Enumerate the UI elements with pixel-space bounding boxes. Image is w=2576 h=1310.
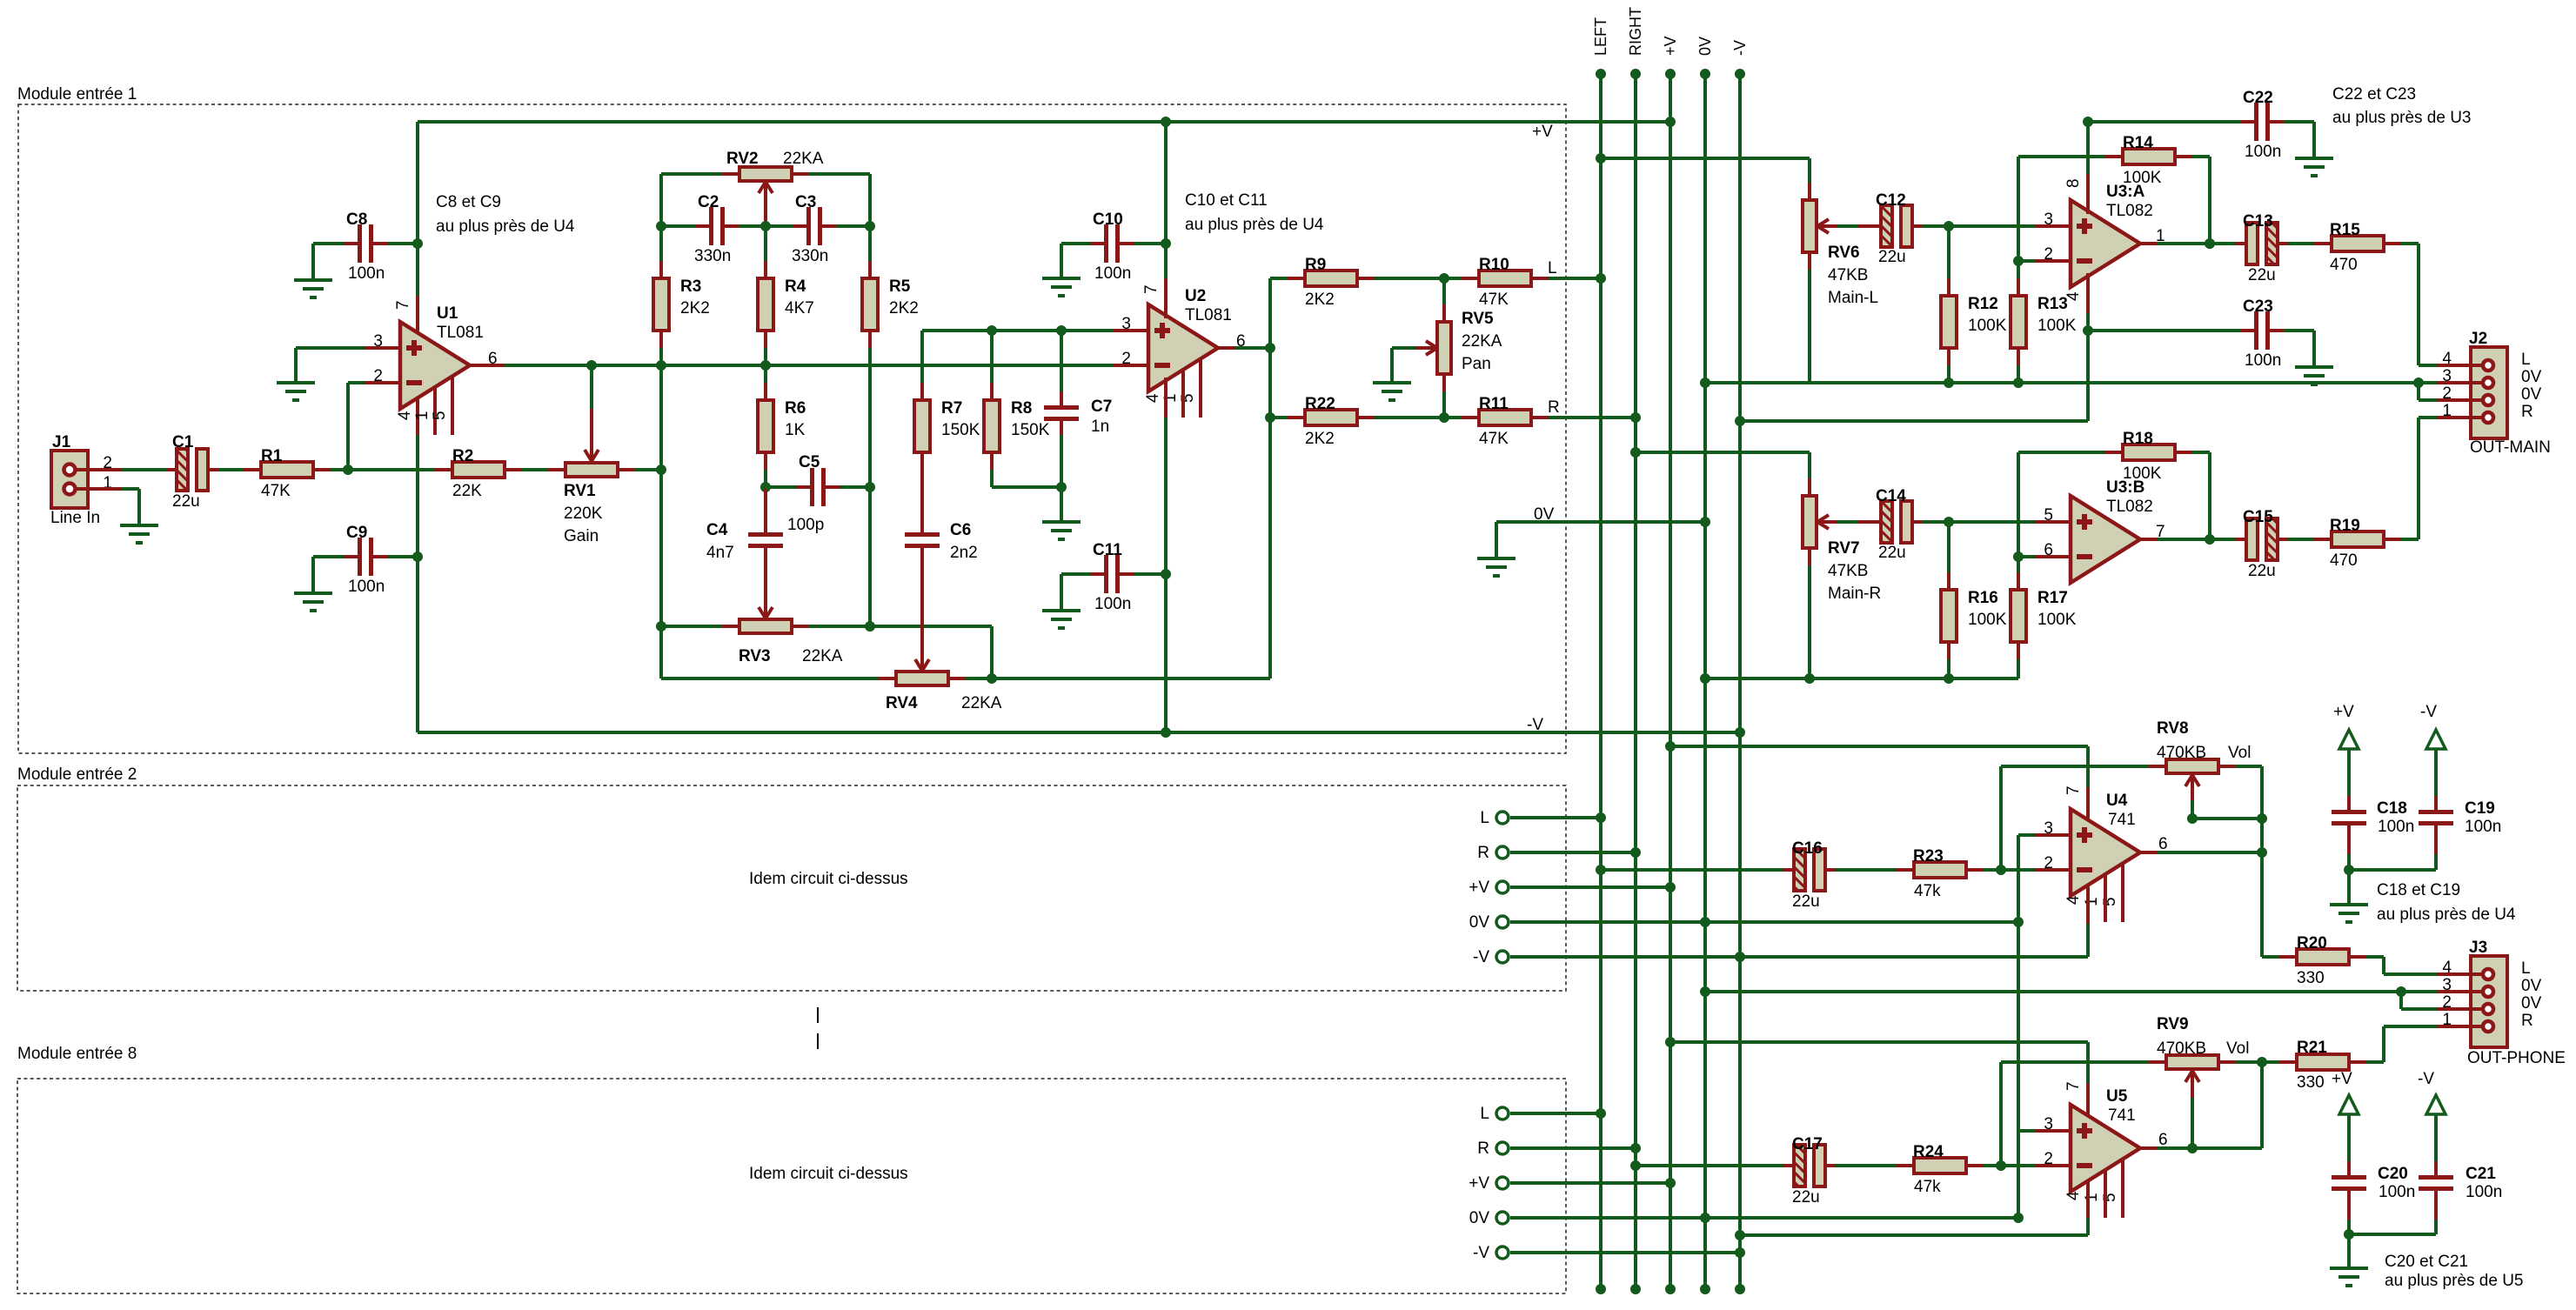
svg-text:U5: U5 xyxy=(2106,1087,2128,1106)
svg-text:22KA: 22KA xyxy=(1462,332,1502,351)
svg-text:L: L xyxy=(1480,809,1489,827)
svg-text:U1: U1 xyxy=(437,304,458,323)
svg-text:+V: +V xyxy=(1469,1174,1489,1193)
svg-text:0V: 0V xyxy=(2521,368,2542,386)
svg-text:-V: -V xyxy=(1731,40,1749,56)
svg-text:4: 4 xyxy=(2064,895,2083,905)
svg-text:C20: C20 xyxy=(2378,1165,2408,1183)
svg-text:Main-L: Main-L xyxy=(1828,289,1878,307)
svg-text:+V: +V xyxy=(1469,879,1489,897)
svg-text:7: 7 xyxy=(2064,785,2083,795)
svg-text:7: 7 xyxy=(1142,284,1161,294)
svg-text:R18: R18 xyxy=(2123,430,2153,448)
svg-text:7: 7 xyxy=(394,300,412,310)
svg-text:Pan: Pan xyxy=(1462,355,1491,373)
svg-text:C12: C12 xyxy=(1876,191,1906,210)
svg-text:47KB: 47KB xyxy=(1828,266,1868,284)
svg-text:3: 3 xyxy=(373,332,383,351)
svg-text:330: 330 xyxy=(2297,1073,2325,1092)
svg-text:0V: 0V xyxy=(1696,37,1714,56)
svg-text:1K: 1K xyxy=(785,421,806,439)
svg-text:C14: C14 xyxy=(1876,487,1906,505)
svg-text:+V: +V xyxy=(1662,36,1679,56)
svg-text:-V: -V xyxy=(1473,1244,1489,1262)
svg-text:R10: R10 xyxy=(1479,256,1509,274)
svg-text:R16: R16 xyxy=(1968,589,1998,607)
svg-text:4: 4 xyxy=(396,411,414,420)
svg-text:R23: R23 xyxy=(1913,847,1944,866)
svg-text:R17: R17 xyxy=(2037,589,2068,607)
svg-text:Idem circuit ci-dessus: Idem circuit ci-dessus xyxy=(749,1165,908,1183)
svg-text:R6: R6 xyxy=(785,399,806,418)
svg-text:2: 2 xyxy=(2044,245,2053,264)
svg-text:2K2: 2K2 xyxy=(889,299,919,317)
svg-text:LEFT: LEFT xyxy=(1592,17,1609,56)
svg-text:R: R xyxy=(1477,1140,1489,1158)
svg-text:R24: R24 xyxy=(1913,1143,1944,1161)
svg-text:22u: 22u xyxy=(1792,892,1820,911)
svg-text:R21: R21 xyxy=(2297,1039,2327,1057)
svg-text:-V: -V xyxy=(2418,1070,2434,1088)
svg-text:RV8: RV8 xyxy=(2157,719,2189,738)
svg-text:R4: R4 xyxy=(785,277,806,296)
svg-text:C18 et C19: C18 et C19 xyxy=(2377,881,2460,899)
svg-text:R20: R20 xyxy=(2297,934,2327,952)
svg-text:2: 2 xyxy=(373,367,383,385)
svg-text:6: 6 xyxy=(2158,1131,2168,1149)
svg-text:RV2: RV2 xyxy=(726,150,759,168)
svg-text:2K2: 2K2 xyxy=(1305,430,1335,448)
svg-text:100n: 100n xyxy=(2245,143,2281,161)
svg-text:TL081: TL081 xyxy=(1185,306,1232,324)
svg-text:47K: 47K xyxy=(1479,291,1509,309)
svg-text:-V: -V xyxy=(2420,703,2437,721)
svg-text:100n: 100n xyxy=(2379,1183,2415,1201)
svg-text:C13: C13 xyxy=(2243,212,2273,231)
svg-text:R8: R8 xyxy=(1011,399,1032,418)
svg-text:150K: 150K xyxy=(1011,421,1050,439)
svg-text:R14: R14 xyxy=(2123,134,2153,152)
svg-text:470: 470 xyxy=(2330,551,2358,570)
svg-text:R1: R1 xyxy=(261,447,283,465)
svg-text:J3: J3 xyxy=(2469,939,2487,957)
svg-text:470: 470 xyxy=(2330,256,2358,274)
svg-text:6: 6 xyxy=(2158,835,2168,853)
svg-text:C8 et C9: C8 et C9 xyxy=(436,193,501,211)
svg-text:47k: 47k xyxy=(1914,1178,1941,1196)
svg-text:0V: 0V xyxy=(1469,913,1490,932)
svg-text:100n: 100n xyxy=(1094,595,1131,613)
svg-text:J2: J2 xyxy=(2469,330,2487,348)
svg-text:741: 741 xyxy=(2108,811,2136,829)
svg-text:C17: C17 xyxy=(1792,1135,1823,1153)
svg-text:Module entrée 2: Module entrée 2 xyxy=(17,765,137,784)
svg-text:1: 1 xyxy=(2083,1193,2101,1202)
svg-text:R: R xyxy=(2521,1012,2533,1030)
svg-text:au plus près de U4: au plus près de U4 xyxy=(436,217,575,236)
svg-text:Module entrée 1: Module entrée 1 xyxy=(17,85,137,104)
svg-text:6: 6 xyxy=(2044,541,2053,559)
svg-text:100K: 100K xyxy=(2037,611,2077,629)
svg-text:100n: 100n xyxy=(2466,1183,2502,1201)
svg-text:C8: C8 xyxy=(346,211,367,229)
svg-text:22KA: 22KA xyxy=(961,694,1002,712)
svg-text:C21: C21 xyxy=(2466,1165,2496,1183)
svg-text:22u: 22u xyxy=(2248,266,2276,284)
svg-text:RV5: RV5 xyxy=(1462,310,1494,328)
svg-text:OUT-PHONE: OUT-PHONE xyxy=(2467,1049,2566,1067)
svg-text:R12: R12 xyxy=(1968,295,1998,313)
svg-text:2K2: 2K2 xyxy=(1305,291,1335,309)
svg-text:470KB: 470KB xyxy=(2157,1039,2206,1058)
svg-text:2K2: 2K2 xyxy=(680,299,710,317)
svg-text:Vol: Vol xyxy=(2226,1039,2249,1058)
svg-text:Gain: Gain xyxy=(564,527,599,545)
svg-text:100n: 100n xyxy=(348,578,385,596)
svg-text:330n: 330n xyxy=(694,247,731,265)
svg-text:U3:A: U3:A xyxy=(2106,183,2145,201)
svg-text:C10: C10 xyxy=(1093,211,1123,229)
svg-text:R7: R7 xyxy=(941,399,962,418)
svg-text:TL082: TL082 xyxy=(2106,498,2153,516)
svg-text:4n7: 4n7 xyxy=(706,544,734,562)
svg-text:RV9: RV9 xyxy=(2157,1015,2189,1033)
svg-text:R22: R22 xyxy=(1305,395,1335,413)
svg-text:330: 330 xyxy=(2297,969,2325,987)
svg-text:R: R xyxy=(1477,844,1489,862)
svg-text:au plus près de U3: au plus près de U3 xyxy=(2332,109,2472,127)
svg-text:22u: 22u xyxy=(1792,1188,1820,1206)
svg-text:4: 4 xyxy=(2064,1191,2083,1200)
svg-text:0V: 0V xyxy=(1534,505,1555,524)
svg-text:au plus près de U4: au plus près de U4 xyxy=(2377,906,2516,924)
svg-text:0V: 0V xyxy=(2521,994,2542,1013)
svg-text:C15: C15 xyxy=(2243,508,2273,526)
svg-text:100n: 100n xyxy=(2378,818,2414,836)
svg-text:22KA: 22KA xyxy=(802,647,843,665)
svg-text:Module entrée 8: Module entrée 8 xyxy=(17,1045,137,1063)
svg-text:C23: C23 xyxy=(2243,297,2273,316)
svg-text:U2: U2 xyxy=(1185,287,1206,305)
svg-text:L: L xyxy=(2521,351,2531,369)
svg-text:22u: 22u xyxy=(1878,248,1906,266)
svg-text:+V: +V xyxy=(2332,1070,2352,1088)
svg-text:R5: R5 xyxy=(889,277,911,296)
svg-text:L: L xyxy=(1480,1105,1489,1123)
svg-text:330n: 330n xyxy=(792,247,828,265)
svg-text:Vol: Vol xyxy=(2228,744,2251,762)
svg-text:Idem circuit ci-dessus: Idem circuit ci-dessus xyxy=(749,870,908,888)
svg-text:au plus près de U5: au plus près de U5 xyxy=(2385,1272,2524,1290)
svg-text:R2: R2 xyxy=(452,447,473,465)
svg-text:R11: R11 xyxy=(1479,395,1509,413)
svg-text:1: 1 xyxy=(2083,897,2101,906)
svg-text:3: 3 xyxy=(2044,211,2053,229)
svg-text:4: 4 xyxy=(2064,291,2083,301)
svg-text:C11: C11 xyxy=(1093,541,1122,559)
svg-text:100n: 100n xyxy=(348,264,385,283)
svg-text:100K: 100K xyxy=(2037,317,2077,335)
svg-text:RV7: RV7 xyxy=(1828,539,1860,558)
svg-text:0V: 0V xyxy=(2521,977,2542,995)
svg-text:TL082: TL082 xyxy=(2106,202,2153,220)
svg-text:470KB: 470KB xyxy=(2157,744,2206,762)
svg-text:100p: 100p xyxy=(787,516,824,534)
svg-text:RIGHT: RIGHT xyxy=(1627,7,1644,56)
svg-text:au plus près de U4: au plus près de U4 xyxy=(1185,216,1324,234)
svg-text:22u: 22u xyxy=(1878,544,1906,562)
svg-text:R3: R3 xyxy=(680,277,701,296)
svg-text:C16: C16 xyxy=(1792,839,1823,858)
svg-text:C5: C5 xyxy=(799,453,820,471)
svg-text:C2: C2 xyxy=(698,193,719,211)
svg-text:100K: 100K xyxy=(1968,317,2007,335)
svg-text:8: 8 xyxy=(2064,178,2083,188)
svg-text:47K: 47K xyxy=(261,482,291,500)
svg-text:C3: C3 xyxy=(795,193,816,211)
svg-text:22u: 22u xyxy=(2248,562,2276,580)
svg-text:3: 3 xyxy=(1121,315,1131,333)
svg-text:C10 et C11: C10 et C11 xyxy=(1185,191,1268,210)
svg-text:2n2: 2n2 xyxy=(950,544,978,562)
svg-text:R: R xyxy=(2521,403,2533,421)
svg-text:5: 5 xyxy=(431,411,449,420)
svg-text:-V: -V xyxy=(1527,716,1543,734)
svg-text:C22: C22 xyxy=(2243,89,2273,107)
svg-text:C19: C19 xyxy=(2465,799,2495,818)
svg-text:U4: U4 xyxy=(2106,792,2128,810)
svg-text:100n: 100n xyxy=(2245,351,2281,370)
svg-text:L: L xyxy=(2521,959,2531,978)
svg-text:+V: +V xyxy=(2333,703,2354,721)
svg-text:RV1: RV1 xyxy=(564,482,596,500)
svg-text:100n: 100n xyxy=(1094,264,1131,283)
svg-text:R15: R15 xyxy=(2330,221,2360,239)
svg-text:-V: -V xyxy=(1473,948,1489,966)
svg-text:C22 et C23: C22 et C23 xyxy=(2332,85,2416,104)
svg-text:C1: C1 xyxy=(172,433,194,451)
svg-text:Main-R: Main-R xyxy=(1828,585,1881,603)
svg-text:C9: C9 xyxy=(346,524,367,542)
svg-text:Line In: Line In xyxy=(50,509,100,527)
svg-text:100n: 100n xyxy=(2465,818,2501,836)
svg-text:22K: 22K xyxy=(452,482,482,500)
svg-text:C4: C4 xyxy=(706,521,728,539)
svg-text:150K: 150K xyxy=(941,421,980,439)
svg-text:2: 2 xyxy=(1121,350,1131,368)
svg-text:22KA: 22KA xyxy=(783,150,824,168)
svg-text:TL081: TL081 xyxy=(437,324,484,342)
svg-text:0V: 0V xyxy=(2521,385,2542,404)
svg-text:R: R xyxy=(1548,398,1560,417)
svg-text:R19: R19 xyxy=(2330,517,2360,535)
svg-text:RV6: RV6 xyxy=(1828,244,1860,262)
svg-text:1: 1 xyxy=(413,411,432,420)
svg-text:J1: J1 xyxy=(52,433,71,451)
svg-text:5: 5 xyxy=(2044,506,2053,525)
svg-text:0V: 0V xyxy=(1469,1209,1490,1227)
svg-text:100K: 100K xyxy=(1968,611,2007,629)
svg-text:C7: C7 xyxy=(1091,398,1112,416)
svg-text:7: 7 xyxy=(2064,1081,2083,1091)
svg-text:R9: R9 xyxy=(1305,256,1326,274)
svg-text:47k: 47k xyxy=(1914,882,1941,900)
svg-text:1n: 1n xyxy=(1091,418,1109,436)
svg-text:C20 et C21: C20 et C21 xyxy=(2385,1253,2468,1271)
svg-text:OUT-MAIN: OUT-MAIN xyxy=(2470,438,2551,457)
svg-text:C18: C18 xyxy=(2377,799,2407,818)
svg-text:741: 741 xyxy=(2108,1106,2136,1125)
svg-text:C6: C6 xyxy=(950,521,971,539)
svg-text:4: 4 xyxy=(1144,393,1162,403)
svg-text:47K: 47K xyxy=(1479,430,1509,448)
svg-text:+V: +V xyxy=(1532,123,1553,141)
svg-text:L: L xyxy=(1548,259,1557,277)
svg-text:4K7: 4K7 xyxy=(785,299,814,317)
svg-text:U3:B: U3:B xyxy=(2106,478,2144,497)
svg-text:4: 4 xyxy=(2442,959,2452,977)
svg-text:22u: 22u xyxy=(172,492,200,511)
svg-text:47KB: 47KB xyxy=(1828,562,1868,580)
svg-text:R13: R13 xyxy=(2037,295,2068,313)
svg-text:220K: 220K xyxy=(564,505,603,523)
svg-text:RV4: RV4 xyxy=(886,694,918,712)
svg-text:RV3: RV3 xyxy=(739,647,771,665)
